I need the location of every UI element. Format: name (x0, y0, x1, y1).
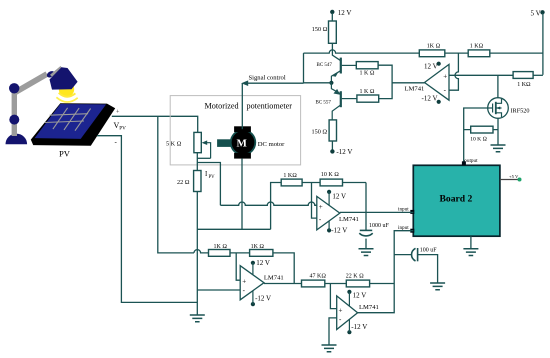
svg-text:22 K Ω: 22 K Ω (346, 273, 364, 279)
lamp light arc 1 (59, 93, 76, 97)
svg-text:+: + (242, 278, 246, 286)
supply 12V of U4 (251, 259, 270, 275)
wire pot-bottom branch to U2 plus input rail (197, 163, 220, 206)
svg-text:M: M (237, 138, 248, 150)
svg-text:12 V: 12 V (353, 292, 367, 300)
wire U2 plus input rail y205.3 with hops at x242 x270.6 x311.5 (220, 202, 316, 205)
svg-text:+5 V: +5 V (509, 174, 519, 179)
board 2 (413, 165, 500, 236)
ground board 2 (463, 249, 478, 256)
PV panel grid lines (44, 108, 90, 131)
wire PV+ tap down to 1K of U4 (vertical x157.8) (158, 116, 194, 253)
supply 12V of U2 (327, 190, 346, 206)
resistor 1K feedback U4 (250, 250, 273, 257)
resistor 1K to 5V (468, 50, 490, 57)
lamp lower arm (12, 90, 17, 136)
supply 12V of U1 (424, 62, 441, 71)
svg-text:+: + (319, 203, 323, 211)
supply -12V of U3 (347, 319, 367, 334)
wire IRF520 gate left and down to board output (464, 108, 488, 163)
svg-text:+: + (443, 73, 447, 81)
node emitter junction (329, 81, 333, 85)
transistor IRF520 (488, 98, 509, 119)
op-amp U1 LM741 (points left) (425, 64, 450, 100)
capacitor 1000uF (359, 230, 372, 248)
svg-text:-: - (115, 138, 118, 146)
wire pot-bottom branch to wiper line (197, 157, 210, 159)
svg-text:input: input (398, 207, 409, 213)
svg-text:VPV: VPV (114, 121, 127, 132)
svg-text:LM741: LM741 (359, 304, 379, 311)
svg-text:-12 V: -12 V (351, 323, 367, 331)
svg-text:22 Ω: 22 Ω (177, 179, 190, 186)
wire output vertical to 1000uF (365, 183, 367, 231)
lamp light arc 2 (56, 97, 77, 102)
capacitor 100uF (412, 248, 438, 283)
svg-text:12 V: 12 V (332, 193, 346, 201)
svg-text:1000 uF: 1000 uF (369, 223, 390, 229)
wire U2 output to board input 1 (340, 211, 414, 213)
svg-text:1 KΩ: 1 KΩ (283, 173, 296, 179)
svg-text:potentiometer: potentiometer (247, 101, 293, 110)
svg-text:LM741: LM741 (405, 86, 425, 93)
svg-text:1K Ω: 1K Ω (251, 244, 264, 250)
ground U3 minus (322, 345, 337, 352)
potentiometer wiper arrow (202, 140, 211, 158)
supply -12V of U4 (251, 291, 271, 307)
motorized potentiometer box (170, 96, 300, 165)
svg-text:10 K Ω: 10 K Ω (321, 172, 339, 178)
ground main left (190, 315, 205, 322)
wire bases join vertical x392.1 to U1 output (378, 65, 424, 98)
wire pullup to 5V line (533, 74, 543, 76)
motor shaft (217, 139, 234, 147)
svg-text:12 V: 12 V (338, 9, 352, 17)
node input terminal 2 (398, 225, 414, 233)
supply 5V (531, 10, 545, 75)
wire U1 plus input rail y75 to 1K-5V resistor (hop at x458.4) (449, 74, 513, 76)
svg-text:-12 V: -12 V (255, 294, 271, 302)
resistor 1K input U4 (209, 250, 231, 257)
op-amp U4 LM741 (240, 266, 264, 300)
wire U3 output up to board input2 (358, 231, 414, 313)
resistor 1K feedback left (R on y53 rail) (419, 50, 445, 57)
wire 22K right to U3 output vertical (370, 283, 395, 285)
lamp head bracket (50, 66, 66, 81)
ground 100uF (430, 283, 445, 290)
svg-text:1 KΩ: 1 KΩ (470, 43, 483, 49)
wire feedback right down to output (273, 253, 294, 284)
lamp swivel (46, 70, 56, 79)
resistor 1K base of Q2 (357, 95, 379, 102)
svg-text:+: + (339, 306, 343, 314)
wire potentiometer bottom to 22ohm top (196, 153, 198, 171)
DC motor M1 (230, 126, 256, 158)
svg-text:10 K Ω: 10 K Ω (470, 136, 487, 142)
svg-text:-12 V: -12 V (331, 227, 347, 235)
node A feedback vertical with hop over plus rail (449, 53, 458, 90)
svg-text:I PV: I PV (205, 171, 215, 180)
svg-text:PV: PV (59, 149, 71, 159)
svg-text:-12 V: -12 V (336, 148, 352, 156)
wire 1K to 5V vertical (490, 52, 543, 54)
resistor 10K feedback U2 (320, 179, 342, 186)
wire minus junction vertical to U2 minus input (312, 183, 317, 219)
wire between 1K resistors on y53 rail (445, 52, 468, 54)
svg-text:12 V: 12 V (424, 62, 438, 70)
lamp upper arm (12, 72, 48, 96)
wire IRF520 source to ground (497, 118, 499, 145)
wire shunt rail y229.3 to motor and U2 staple (197, 228, 270, 230)
svg-text:Board 2: Board 2 (440, 194, 473, 205)
wire 1K to feedback 1K with tap to plus input (230, 253, 250, 280)
wire 10K right to output vertical (343, 182, 367, 184)
lamp shade (50, 67, 78, 89)
wire IRF520 drain up to plus rail (497, 75, 499, 97)
resistor 1K input of U2 (281, 179, 302, 186)
wire staple up to U2 1K input resistor (271, 183, 282, 230)
resistor 150ohm bottom (329, 120, 336, 141)
svg-text:DC motor: DC motor (258, 141, 285, 148)
PV panel body (31, 103, 115, 146)
supply 12V of U3 (347, 290, 366, 306)
wire board +5V tap (500, 174, 522, 182)
svg-text:BC 557: BC 557 (316, 101, 332, 106)
resistor 1K drain pullup (513, 72, 533, 79)
svg-text:5 K Ω: 5 K Ω (166, 141, 182, 148)
svg-text:BC 547: BC 547 (317, 63, 333, 68)
lamp base (6, 134, 28, 145)
svg-text:100 uF: 100 uF (420, 247, 438, 253)
wire 1K to 10K junction (302, 182, 320, 184)
transistor Q1 BC547 (331, 58, 356, 83)
wire board ground stem (470, 236, 472, 249)
resistor 1K base of Q1 (356, 62, 378, 69)
resistor 22K (346, 280, 369, 287)
svg-text:12 V: 12 V (256, 259, 270, 267)
svg-text:1K Ω: 1K Ω (427, 43, 440, 49)
svg-text:-12 V: -12 V (422, 94, 438, 102)
svg-text:150 Ω: 150 Ω (312, 26, 328, 33)
wire 150ohm to BC547 collector (332, 43, 341, 61)
wire U3 minus to ground (329, 318, 337, 345)
resistor 22ohm (194, 171, 201, 192)
svg-text:+: + (116, 110, 120, 116)
wire base rail left vertical x303.5 (303, 53, 305, 83)
transistor Q2 BC557 (331, 83, 357, 120)
node input terminal 1 (398, 207, 414, 214)
svg-text:Motorized: Motorized (205, 101, 239, 110)
node output terminal (462, 158, 478, 166)
supply +12V top (330, 9, 351, 21)
svg-text:LM741: LM741 (264, 274, 284, 281)
wire U4 output to 47K (264, 283, 302, 285)
potentiometer R 5K body (194, 132, 201, 152)
svg-text:5 V: 5 V (531, 10, 541, 18)
resistor 10K gate (471, 126, 493, 133)
svg-text:1 K Ω: 1 K Ω (360, 71, 375, 77)
wire to U4 minus input (197, 289, 240, 291)
op-amp U3 LM741 (337, 296, 358, 330)
supply -12V of U2 (327, 221, 347, 235)
resistor 150ohm top (329, 21, 337, 43)
supply -12V below Q2 (330, 141, 352, 156)
svg-text:LM741: LM741 (339, 216, 359, 223)
svg-text:1K Ω: 1K Ω (214, 244, 227, 250)
wire emitter junction left to signal rail (304, 82, 332, 84)
svg-text:1 K Ω: 1 K Ω (360, 89, 375, 95)
svg-text:IRF520: IRF520 (511, 108, 530, 115)
op-amp U2 LM741 (317, 196, 340, 230)
wire 100uF branch (394, 254, 411, 256)
ground IRF520 source (491, 145, 506, 152)
lamp bulb (59, 82, 74, 97)
wire 10K ends (464, 129, 498, 131)
wire 47K to 22K with junction down to U3 plus (325, 284, 347, 309)
svg-text:150 Ω: 150 Ω (312, 128, 328, 135)
ground 1000uF (359, 249, 374, 256)
feedback rail y53.1 from x303.5 to 1K (hop at x332.4) (304, 50, 420, 53)
wire motor bottom down to shunt rail (241, 159, 243, 230)
wire PV+ to potentiometer top (112, 116, 198, 132)
supply -12V of U1 (422, 94, 441, 104)
svg-text:output: output (464, 158, 478, 164)
svg-text:1 KΩ: 1 KΩ (517, 82, 530, 88)
lamp middle joint (9, 115, 19, 125)
wire U4 input line y252.9 hop at x197.3 (194, 250, 209, 253)
wire 22ohm bottom down to main ground (with hop over 1K line, T at y229.3, T at y290, T at y302.4) (196, 192, 198, 316)
svg-text:47 KΩ: 47 KΩ (310, 273, 326, 279)
wire signal control to motor top (241, 80, 303, 129)
resistor 47K (302, 280, 325, 287)
svg-text:Signal control: Signal control (249, 75, 286, 82)
lamp shoulder joint (9, 83, 19, 93)
wire PV- down and right to ground net (97, 136, 197, 303)
